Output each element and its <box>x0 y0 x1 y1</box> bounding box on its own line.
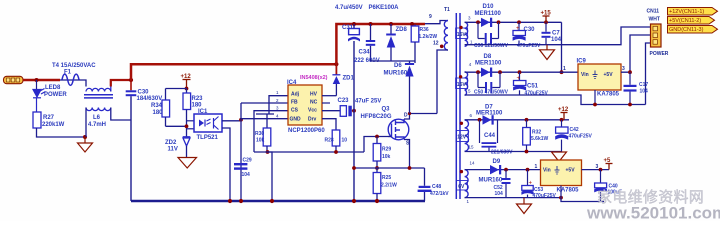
svg-text:5.6k1W: 5.6k1W <box>531 136 549 142</box>
svg-text:12: 12 <box>433 41 439 47</box>
svg-text:Adj: Adj <box>291 92 300 98</box>
wire Q3 source <box>404 140 410 169</box>
net +12 right <box>558 107 569 120</box>
svg-text:470uF25V: 470uF25V <box>517 43 541 49</box>
svg-text:+5V: +5V <box>604 72 614 78</box>
wire row4 top <box>465 169 541 171</box>
resistor R28 <box>332 130 340 152</box>
wire red L6 out <box>111 80 131 87</box>
zener ZD8 TVS <box>386 24 396 61</box>
svg-text:R34: R34 <box>151 103 163 109</box>
svg-text:14: 14 <box>470 161 476 166</box>
svg-text:HV: HV <box>310 92 318 98</box>
svg-text:D9: D9 <box>493 159 501 165</box>
wire Adj <box>269 96 288 114</box>
svg-text:+: + <box>516 26 520 32</box>
capacitor C30b <box>513 22 526 44</box>
svg-text:D8: D8 <box>484 54 492 60</box>
svg-text:T4 15A/250VAC: T4 15A/250VAC <box>52 63 96 69</box>
wire Q3 drain <box>404 114 410 120</box>
LED8 <box>33 80 46 112</box>
svg-text:Drv: Drv <box>308 117 317 123</box>
svg-text:10: 10 <box>342 138 348 144</box>
svg-text:F1: F1 <box>64 70 72 76</box>
capacitor C53 <box>521 170 533 198</box>
svg-text:180: 180 <box>153 110 164 116</box>
svg-text:IC1: IC1 <box>198 109 208 115</box>
svg-text:2.2/1W: 2.2/1W <box>381 183 397 189</box>
svg-text:4.7mH: 4.7mH <box>88 122 106 128</box>
ground ZD2 <box>178 158 197 169</box>
svg-text:HFP8C20G: HFP8C20G <box>361 114 392 120</box>
svg-text:R25: R25 <box>382 175 391 181</box>
svg-text:Vin: Vin <box>581 72 589 78</box>
capacitor C51 <box>513 72 526 95</box>
svg-text:D: D <box>404 113 408 119</box>
wire row3 top <box>465 119 569 121</box>
flag +12V <box>668 8 718 16</box>
wire red to top rail <box>336 24 425 64</box>
wire GND pin <box>241 118 288 120</box>
resistor R23 <box>183 89 191 138</box>
wire IC10 gnd <box>560 186 562 198</box>
wire +12 to R34 <box>166 88 187 90</box>
flag GND <box>668 26 718 34</box>
choke L6 <box>84 80 131 137</box>
svg-text:C23: C23 <box>338 98 350 104</box>
node bus-4 <box>375 199 379 203</box>
regulator IC9 <box>578 64 621 90</box>
svg-text:C17: C17 <box>639 82 648 88</box>
resistor R27 <box>33 112 41 128</box>
node S-rail <box>408 166 412 170</box>
winding labels <box>456 28 469 190</box>
wire +15 to IC9 <box>561 22 563 72</box>
svg-text:+5V: +5V <box>566 168 576 174</box>
svg-text:C51: C51 <box>527 84 539 90</box>
svg-text:POWER: POWER <box>44 92 67 98</box>
node +12 feed <box>185 87 189 91</box>
node rail ZD8 <box>389 22 393 26</box>
svg-text:KA7805: KA7805 <box>597 92 620 98</box>
svg-text:C7: C7 <box>552 31 560 37</box>
svg-text:104: 104 <box>551 37 562 43</box>
wire C31 vertical <box>353 41 355 201</box>
wire CS <box>254 111 288 152</box>
wire row2 return <box>465 95 646 105</box>
svg-text:C42: C42 <box>570 127 579 133</box>
svg-text:1.2k/2W: 1.2k/2W <box>419 34 438 40</box>
wire FB vertical <box>240 103 242 201</box>
svg-text:11V: 11V <box>168 147 178 153</box>
svg-text:IN5408(x2): IN5408(x2) <box>300 75 328 81</box>
capacitor C40 <box>594 170 607 202</box>
resistor R25 <box>373 168 381 201</box>
ground row3 <box>552 152 567 162</box>
net +15 <box>541 11 552 23</box>
svg-text:3: 3 <box>596 164 599 170</box>
svg-text:TLP521: TLP521 <box>197 135 219 141</box>
wire gate <box>364 137 388 153</box>
pin numbers T1 <box>467 16 476 205</box>
svg-text:C34: C34 <box>359 50 371 56</box>
svg-text:LED8: LED8 <box>45 85 61 91</box>
capacitor C36 snubber <box>478 22 499 44</box>
svg-text:GND(CN11-3): GND(CN11-3) <box>669 27 704 33</box>
svg-text:+12V(CN11-1): +12V(CN11-1) <box>669 9 704 15</box>
transformer T1 <box>425 13 469 199</box>
capacitor C50 snubber <box>478 72 500 93</box>
zener ZD1 <box>332 64 340 96</box>
wire IC9 out <box>621 35 651 72</box>
wire red riser <box>131 64 336 80</box>
svg-text:MUR160: MUR160 <box>384 71 408 77</box>
wire drain node <box>410 113 438 115</box>
svg-text:12V: 12V <box>457 135 467 141</box>
regulator IC10 <box>541 160 582 186</box>
svg-text:+: + <box>517 76 521 82</box>
svg-text:15V: 15V <box>457 32 467 38</box>
svg-text:104: 104 <box>495 191 504 197</box>
node R30 <box>266 150 270 154</box>
svg-text:10k: 10k <box>382 154 391 160</box>
svg-text:Vin: Vin <box>543 168 551 174</box>
resistor R34 <box>162 89 170 127</box>
svg-text:C29: C29 <box>243 158 252 164</box>
svg-text:1: 1 <box>563 66 566 72</box>
capacitor C48 <box>418 168 432 201</box>
wire Drv <box>322 119 336 130</box>
svg-text:GND: GND <box>290 117 302 123</box>
wire R30 node to bus <box>268 152 273 201</box>
svg-text:ZD2: ZD2 <box>165 140 177 146</box>
svg-text:L6: L6 <box>93 115 101 121</box>
svg-text:NC: NC <box>310 100 318 106</box>
svg-text:9: 9 <box>429 14 432 20</box>
svg-text:D6: D6 <box>394 63 402 69</box>
wire Vcc <box>322 110 340 112</box>
op-amp U1 optocoupler IC1 <box>194 114 222 132</box>
svg-text:IC9: IC9 <box>577 59 587 65</box>
wire IC1 emitter down <box>222 128 230 201</box>
diode D9 <box>490 165 501 174</box>
transistor Q3 MOSFET <box>388 119 409 140</box>
op-amp U2 controller IC4 <box>288 85 322 125</box>
svg-text:MER1100: MER1100 <box>475 61 502 67</box>
wire R34 to ZD2 node <box>166 125 188 127</box>
capacitor C31 <box>348 24 360 42</box>
svg-text:FB: FB <box>291 100 298 106</box>
svg-text:POWER: POWER <box>650 51 669 57</box>
wire row2 top <box>465 71 578 73</box>
wire IC9 gnd <box>594 90 596 105</box>
svg-text:4.7u/450V: 4.7u/450V <box>335 5 363 11</box>
resistor R36 <box>411 25 419 64</box>
node L6 return <box>83 135 87 139</box>
svg-text:220k1W: 220k1W <box>42 122 65 128</box>
net +12 (opto) <box>181 74 192 89</box>
svg-text:D10: D10 <box>483 4 495 10</box>
wire out common <box>561 198 604 202</box>
diode D6 <box>405 61 414 114</box>
capacitor C23 <box>340 106 354 117</box>
svg-text:C36 121/50WV: C36 121/50WV <box>474 43 509 49</box>
svg-text:R32: R32 <box>532 130 541 136</box>
svg-text:MER1100: MER1100 <box>476 111 503 117</box>
wire AC live <box>23 79 60 81</box>
ground bus wire <box>131 200 425 203</box>
svg-text:C31: C31 <box>342 25 354 31</box>
node rail C34 <box>369 22 373 26</box>
svg-text:1: 1 <box>535 164 538 170</box>
ground row4 <box>517 198 532 214</box>
svg-text:R30: R30 <box>255 131 264 137</box>
wire row4 return <box>465 197 561 199</box>
node bus-3 <box>352 199 356 203</box>
svg-text:www.520101.com: www.520101.com <box>586 204 720 222</box>
pin numbers IC4 <box>276 90 279 119</box>
node DC+ <box>129 78 133 82</box>
svg-text:R29: R29 <box>382 147 391 153</box>
wire R27 to ground <box>37 128 86 137</box>
svg-text:104: 104 <box>640 89 649 95</box>
svg-text:C44: C44 <box>484 133 496 139</box>
node Vcc <box>352 109 356 113</box>
svg-text:WHT: WHT <box>649 17 660 23</box>
svg-text:Q3: Q3 <box>382 107 391 113</box>
svg-text:KA7805: KA7805 <box>557 188 580 194</box>
wire source rail <box>354 167 425 169</box>
capacitor C17 <box>624 72 637 104</box>
svg-text:6V: 6V <box>458 184 465 190</box>
resistor R30 <box>263 114 271 152</box>
capacitor C7 <box>542 22 551 44</box>
node snub <box>352 166 356 170</box>
wire IC1 to FB <box>222 120 241 122</box>
svg-text:CS: CS <box>291 108 299 114</box>
node bus-2b <box>270 199 274 203</box>
wire to IC1 pins <box>187 121 195 129</box>
svg-text:Vcc: Vcc <box>308 108 317 114</box>
ground <box>78 137 93 152</box>
flag +5V <box>668 17 715 25</box>
node ZD2 <box>185 124 189 128</box>
svg-text:104: 104 <box>242 172 251 178</box>
capacitor C42 <box>555 120 568 152</box>
svg-text:IC4: IC4 <box>287 80 297 86</box>
node source <box>375 166 379 170</box>
zener ZD2 <box>183 137 191 158</box>
resistor R29 <box>373 137 381 169</box>
node Drv-CS <box>334 150 338 154</box>
svg-text:R28: R28 <box>325 138 334 144</box>
wire clamp node <box>371 60 416 62</box>
svg-text:470uF25V: 470uF25V <box>569 134 593 140</box>
wire CS rail <box>254 151 364 153</box>
svg-text:MER1100: MER1100 <box>475 11 502 17</box>
diode D8 <box>481 68 492 77</box>
wire IC10 out <box>582 169 610 171</box>
wire row3 return <box>465 151 562 153</box>
svg-text:MUR160: MUR160 <box>479 178 503 184</box>
capacitor C34 <box>366 24 375 61</box>
svg-text:+: + <box>529 181 533 187</box>
node FB <box>239 118 243 122</box>
capacitor C44 snubber <box>480 120 498 152</box>
diode D10 <box>481 18 492 27</box>
node rail <box>334 62 338 66</box>
net +5 <box>604 158 613 170</box>
wire NC stub <box>322 102 330 104</box>
capacitor C52 <box>502 170 511 198</box>
wire Adj link <box>256 113 274 115</box>
wire CN11 pin3 <box>646 43 651 105</box>
fuse F1 <box>60 74 84 85</box>
node bus-1 <box>228 199 232 203</box>
capacitor C30 <box>126 80 137 201</box>
svg-text:3: 3 <box>622 66 625 72</box>
svg-text:T1: T1 <box>444 7 450 13</box>
svg-text:NCP1200P60: NCP1200P60 <box>288 128 325 134</box>
resistor R32 <box>523 120 531 152</box>
svg-text:47uF 25V: 47uF 25V <box>355 99 381 105</box>
node AC-in <box>35 78 39 82</box>
svg-text:ZD8: ZD8 <box>396 27 408 33</box>
wire FB to IC4 <box>241 102 288 104</box>
svg-text:184/630V: 184/630V <box>137 96 163 102</box>
node rail C31 <box>352 22 356 26</box>
connector J1 AC input <box>4 76 24 83</box>
svg-text:R27: R27 <box>43 115 55 121</box>
svg-text:+5V(CN11-2): +5V(CN11-2) <box>669 18 701 24</box>
svg-text:C48: C48 <box>432 184 441 190</box>
svg-text:ZD1: ZD1 <box>343 76 355 82</box>
node rail R36 <box>410 22 414 26</box>
svg-text:P6KE100A: P6KE100A <box>369 5 400 11</box>
diode D7 <box>483 115 494 124</box>
svg-text:CN11: CN11 <box>647 9 660 15</box>
node gate <box>375 135 379 139</box>
svg-text:10k: 10k <box>256 138 265 144</box>
svg-text:R36: R36 <box>420 27 429 33</box>
svg-text:15: 15 <box>469 145 475 150</box>
capacitor C29 <box>234 163 247 170</box>
svg-text:221/630V: 221/630V <box>491 150 513 156</box>
svg-text:180: 180 <box>192 103 203 109</box>
node bus-2 <box>239 199 243 203</box>
svg-text:15V: 15V <box>457 82 467 88</box>
svg-text:C30: C30 <box>138 90 150 96</box>
svg-text:R23: R23 <box>192 96 204 102</box>
wire HV pin <box>322 95 336 97</box>
wire row1 top <box>465 21 562 23</box>
svg-text:C30: C30 <box>524 27 536 33</box>
wire row1 return <box>465 27 651 45</box>
ground row1 <box>540 45 555 60</box>
svg-text:472/1kV: 472/1kV <box>430 191 449 197</box>
connector CN11 <box>651 24 662 47</box>
